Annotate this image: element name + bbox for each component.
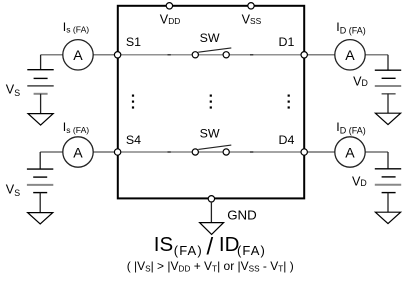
- svg-text:Is (FA): Is (FA): [63, 120, 90, 135]
- svg-text:S1: S1: [126, 35, 141, 49]
- svg-text:ID (FA): ID (FA): [336, 120, 365, 136]
- svg-text:D4: D4: [279, 133, 295, 147]
- svg-text:VS: VS: [6, 83, 20, 98]
- svg-text:GND: GND: [227, 208, 257, 223]
- svg-text:VDD: VDD: [160, 13, 181, 27]
- svg-text:SW: SW: [200, 127, 220, 141]
- svg-text:IS: IS: [154, 233, 173, 256]
- svg-text:( |VS| > |VDD + VT| or |VSS -: ( |VS| > |VDD + VT| or |VSS - VT| ): [127, 259, 294, 274]
- svg-text:VD: VD: [353, 75, 368, 89]
- svg-text:A: A: [345, 47, 355, 63]
- svg-text:VS: VS: [6, 183, 20, 198]
- svg-text:(FA): (FA): [237, 243, 266, 258]
- svg-text:A: A: [345, 144, 355, 160]
- svg-text:VD: VD: [352, 174, 367, 188]
- svg-text:SW: SW: [200, 31, 220, 45]
- svg-text:D1: D1: [279, 35, 295, 49]
- svg-text:/: /: [207, 233, 214, 260]
- svg-text:A: A: [73, 144, 83, 160]
- svg-text:ID (FA): ID (FA): [336, 20, 365, 36]
- svg-text:Is (FA): Is (FA): [63, 20, 90, 35]
- svg-text:A: A: [73, 47, 83, 63]
- svg-text:(FA): (FA): [174, 243, 203, 258]
- svg-text:VSS: VSS: [242, 13, 262, 27]
- svg-text:S4: S4: [126, 133, 141, 147]
